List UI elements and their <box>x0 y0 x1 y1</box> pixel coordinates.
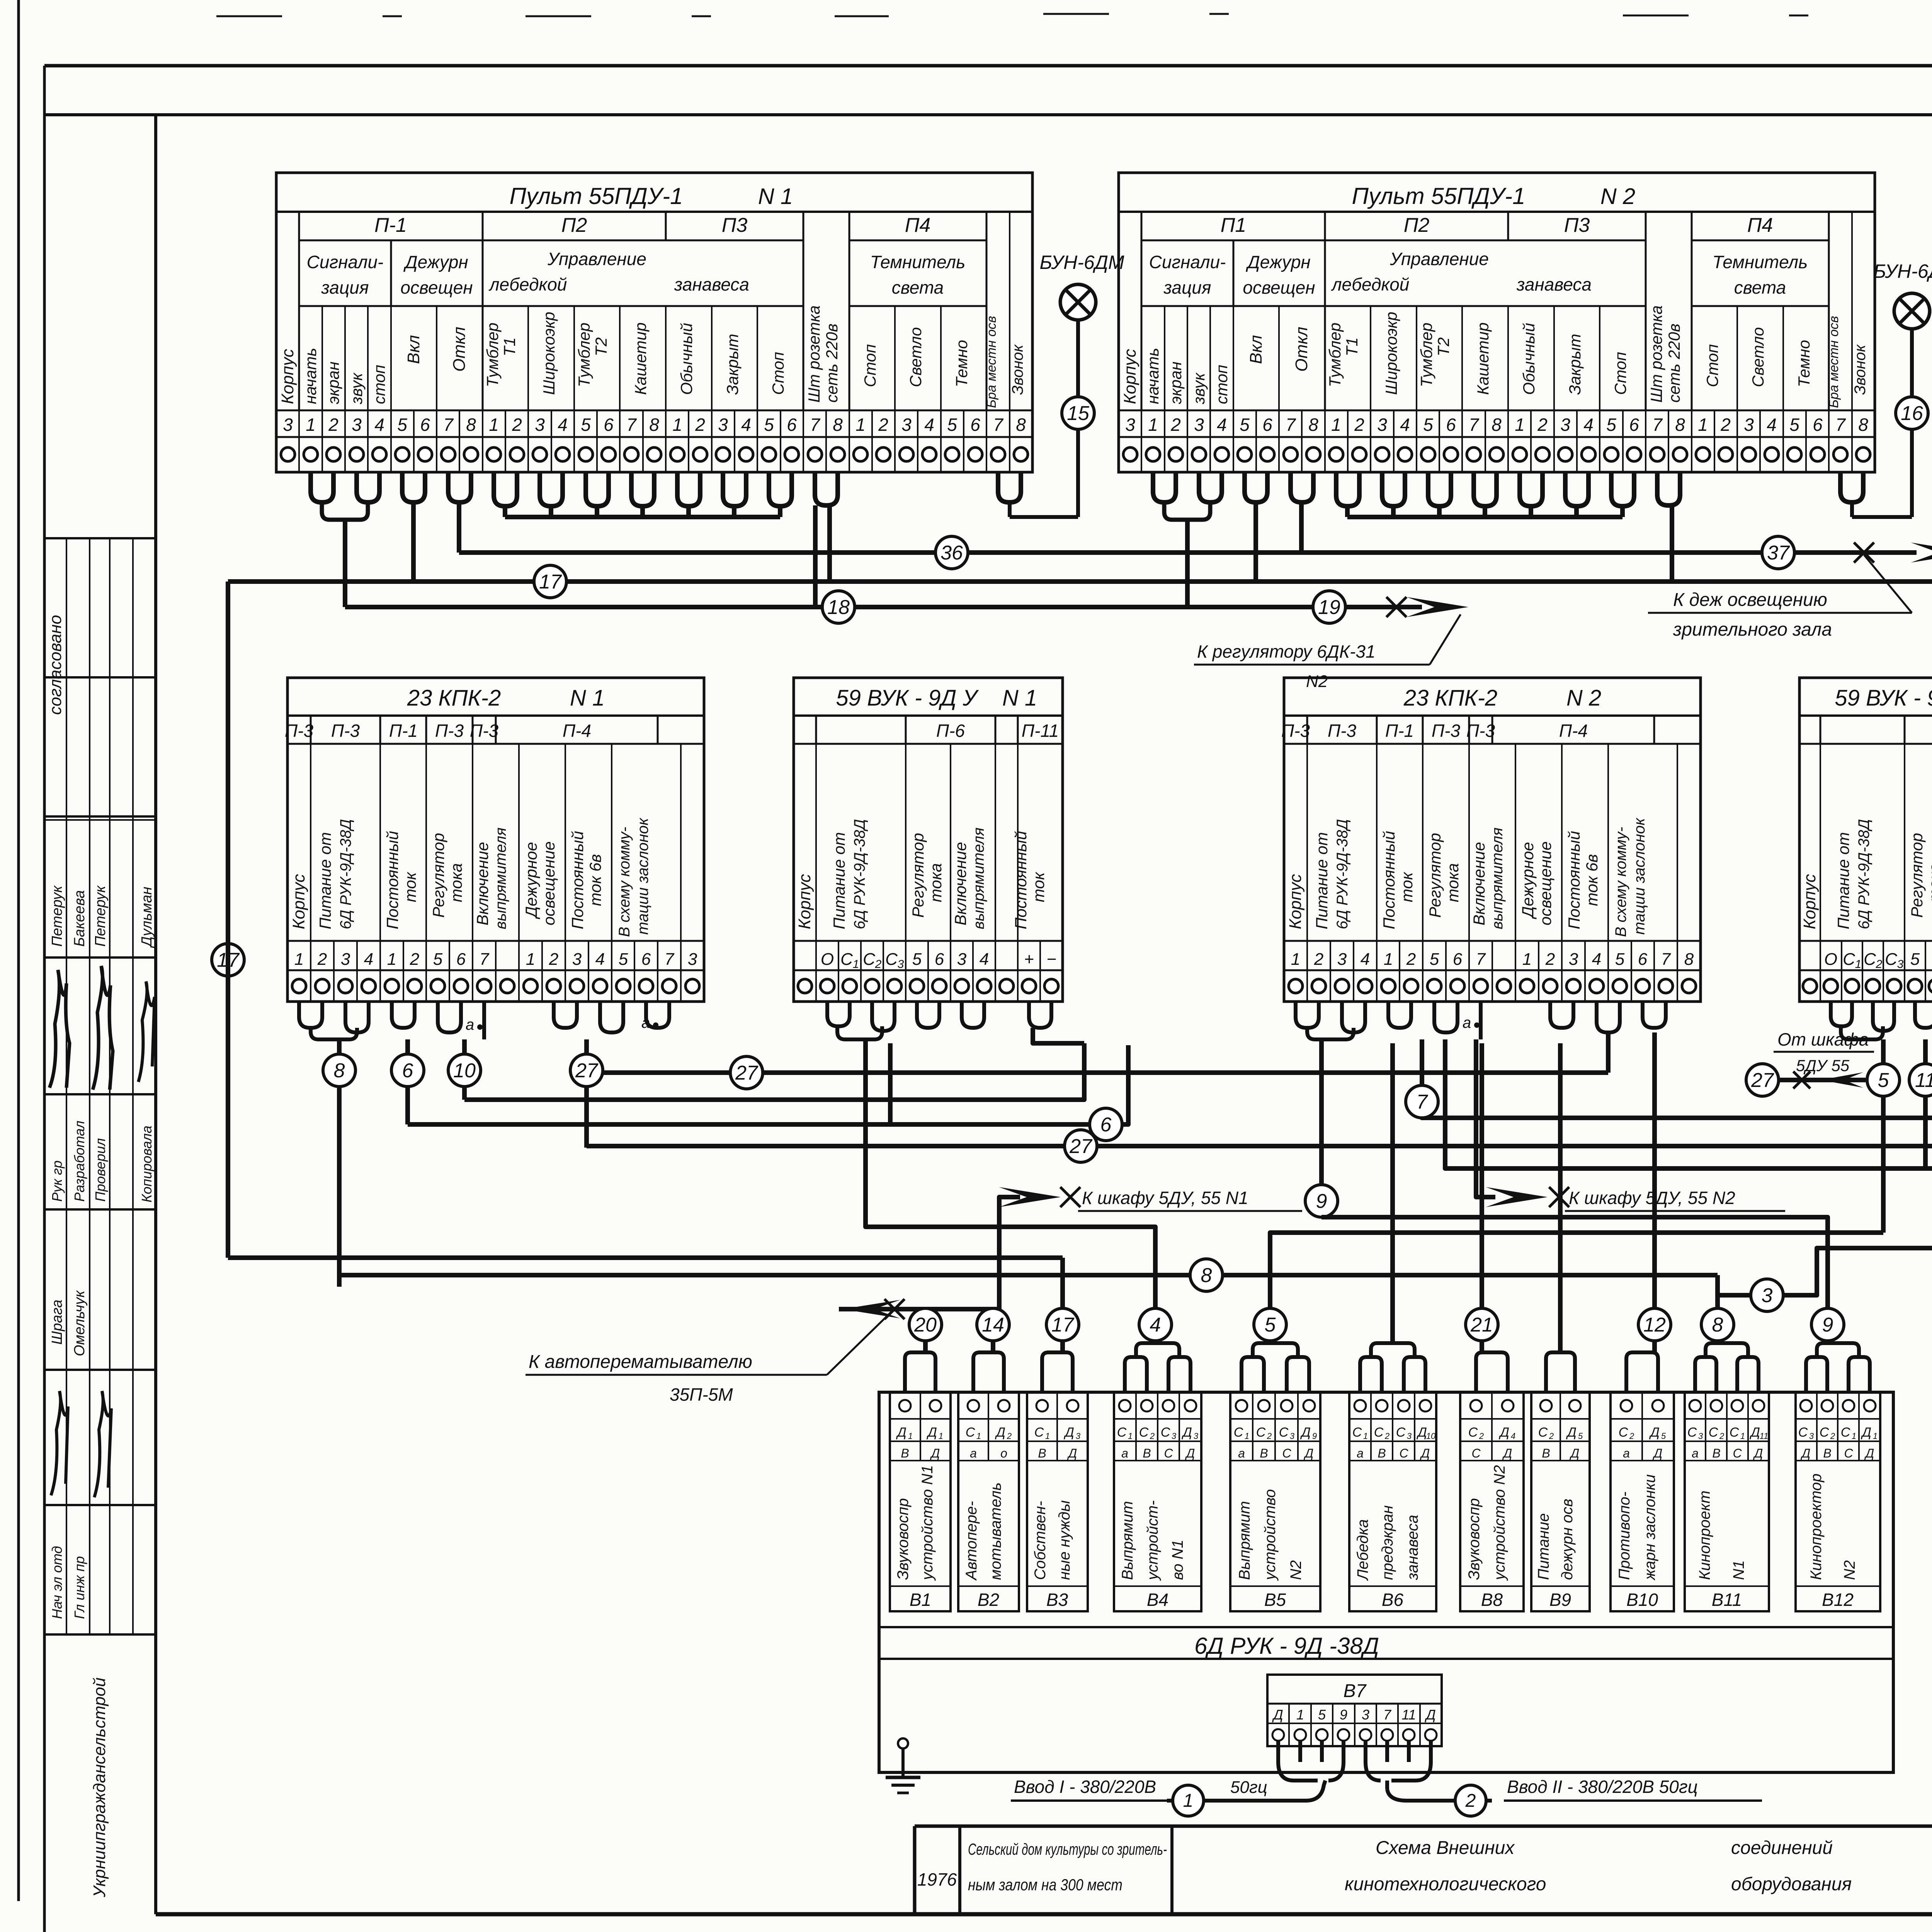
svg-text:N2: N2 <box>1287 1560 1304 1580</box>
svg-text:1: 1 <box>1873 1431 1878 1441</box>
svg-text:О: О <box>821 950 834 969</box>
svg-text:П-4: П-4 <box>1559 721 1588 741</box>
svg-text:Откл: Откл <box>1292 327 1311 372</box>
svg-text:Д: Д <box>1424 1707 1435 1723</box>
svg-text:К регулятору 6ДК-31: К регулятору 6ДК-31 <box>1197 641 1376 662</box>
svg-text:Постоянный: Постоянный <box>1012 831 1030 929</box>
svg-text:6: 6 <box>1100 1114 1112 1136</box>
svg-text:мотыватель: мотыватель <box>987 1483 1004 1580</box>
svg-text:5: 5 <box>1240 415 1250 435</box>
wire 27 stub <box>570 1039 603 1148</box>
svg-text:6Д РУК-9Д-38Д: 6Д РУК-9Д-38Д <box>851 819 868 929</box>
svg-text:Д: Д <box>1801 1446 1811 1460</box>
main distribution cabinet 6Д РУК-9Д-38Д <box>879 1392 1893 1772</box>
svg-text:П-3: П-3 <box>470 721 499 741</box>
svg-text:17: 17 <box>1051 1314 1075 1336</box>
svg-text:П-1: П-1 <box>389 721 418 741</box>
svg-text:В9: В9 <box>1549 1590 1571 1610</box>
svg-text:7: 7 <box>1835 415 1846 435</box>
svg-text:7: 7 <box>665 950 675 969</box>
svg-text:В: В <box>901 1446 909 1460</box>
label Ввод I <box>1011 1777 1267 1801</box>
svg-text:С: С <box>1730 1425 1739 1440</box>
stamp roles <box>49 1121 155 1202</box>
svg-text:Постоянный: Постоянный <box>568 831 587 929</box>
svg-text:С: С <box>863 950 876 969</box>
svg-text:лебедкой: лебедкой <box>488 274 567 294</box>
svg-text:тока: тока <box>927 863 945 902</box>
svg-text:Корпус: Корпус <box>289 874 308 929</box>
input switch block В7 <box>1267 1675 1442 1746</box>
feeder В10 Противопо- жарн заслонки <box>1611 1392 1674 1611</box>
rectifier unit 59ВУК-9ДУ N1 <box>794 678 1063 1002</box>
svg-text:К деж освещению: К деж освещению <box>1673 590 1827 610</box>
svg-text:Т2: Т2 <box>592 337 610 356</box>
wire 18/19 bus to regulator <box>345 591 1468 623</box>
svg-text:Выпрямит: Выпрямит <box>1236 1501 1253 1580</box>
svg-text:В: В <box>1260 1446 1268 1460</box>
svg-text:С: С <box>1374 1425 1384 1440</box>
svg-text:1: 1 <box>1852 1431 1856 1441</box>
svg-text:N1: N1 <box>1730 1560 1747 1580</box>
svg-text:освещение: освещение <box>540 841 558 925</box>
svg-text:П2: П2 <box>561 214 587 236</box>
svg-text:В5: В5 <box>1264 1590 1286 1610</box>
svg-text:В12: В12 <box>1822 1590 1854 1610</box>
svg-text:3: 3 <box>1194 1431 1199 1441</box>
svg-text:2: 2 <box>317 950 327 969</box>
svg-text:8: 8 <box>1712 1314 1723 1336</box>
svg-text:Схема Внешних: Схема Внешних <box>1376 1838 1515 1858</box>
svg-text:Выпрямит: Выпрямит <box>1119 1501 1136 1580</box>
svg-text:Темнитель: Темнитель <box>1713 252 1808 272</box>
svg-text:1: 1 <box>1855 958 1862 971</box>
svg-text:зация: зация <box>321 277 369 298</box>
wire 17 bundle above B3 <box>1042 1308 1079 1392</box>
svg-text:С: С <box>1164 1446 1173 1460</box>
svg-text:6Д РУК-9Д-38Д: 6Д РУК-9Д-38Д <box>337 819 354 929</box>
svg-text:2: 2 <box>1830 1431 1835 1441</box>
wire 6 run <box>408 1043 1128 1124</box>
svg-text:тока: тока <box>447 863 465 902</box>
wire 36/37 bus to auditorium lighting <box>459 536 1932 613</box>
svg-text:4: 4 <box>595 950 605 969</box>
far-left sheet edge <box>17 0 20 1901</box>
feeder В8 Звуковоспр устройство N2 <box>1460 1392 1524 1611</box>
svg-text:6: 6 <box>604 415 614 435</box>
svg-text:С: С <box>1798 1425 1808 1440</box>
svg-text:Стоп: Стоп <box>1611 352 1629 395</box>
svg-text:С: С <box>1619 1425 1628 1440</box>
svg-text:занавеса: занавеса <box>1404 1515 1421 1580</box>
svg-text:35П-5М: 35П-5М <box>670 1384 733 1405</box>
svg-text:17: 17 <box>539 571 562 593</box>
svg-text:Вкл: Вкл <box>1247 335 1265 364</box>
label К шкафу 5ДУ 55 N1 <box>1078 1188 1302 1211</box>
wire 5 run (ВУК N2 to B5) <box>1270 1096 1883 1308</box>
svg-text:С: С <box>1538 1425 1548 1440</box>
svg-text:Регулятор: Регулятор <box>909 833 927 918</box>
svg-text:N2: N2 <box>1841 1560 1858 1580</box>
wire 12 bundle above B10 <box>1626 1032 1671 1392</box>
svg-text:С: С <box>1279 1425 1289 1440</box>
svg-text:8: 8 <box>1201 1264 1212 1287</box>
svg-text:Обычный: Обычный <box>677 323 696 395</box>
svg-text:6: 6 <box>970 415 980 435</box>
svg-text:Бакеева: Бакеева <box>71 890 88 947</box>
svg-text:В10: В10 <box>1626 1590 1658 1610</box>
wire loops under КПК N2 <box>1296 1002 1666 1039</box>
svg-text:7: 7 <box>1661 950 1671 969</box>
svg-text:Питание от: Питание от <box>1834 832 1852 929</box>
svg-text:Шт розетка: Шт розетка <box>1647 305 1665 403</box>
svg-text:N 2: N 2 <box>1600 184 1635 209</box>
svg-text:Бра местн осв: Бра местн осв <box>984 316 999 408</box>
svg-text:С: С <box>1234 1425 1243 1440</box>
label К автоперематывателю 35П-5М <box>526 1311 893 1405</box>
svg-text:1: 1 <box>672 415 682 435</box>
svg-text:18: 18 <box>827 596 850 619</box>
svg-text:8: 8 <box>1492 415 1502 435</box>
svg-text:о: о <box>1000 1446 1007 1460</box>
svg-text:3: 3 <box>1337 950 1347 969</box>
rectifier unit 59ВУК-9ДУ N2 <box>1799 678 1932 1002</box>
feeder В6 Лебедка предэкран занавеса <box>1349 1392 1436 1611</box>
svg-text:N2: N2 <box>1306 672 1328 691</box>
svg-text:3: 3 <box>901 415 912 435</box>
svg-text:2: 2 <box>410 950 419 969</box>
svg-text:7: 7 <box>993 415 1003 435</box>
svg-text:Т1: Т1 <box>500 337 519 356</box>
svg-text:устройство N2: устройство N2 <box>1491 1465 1508 1581</box>
svg-text:5: 5 <box>1661 1431 1666 1441</box>
svg-text:1: 1 <box>306 415 316 435</box>
svg-text:Включение: Включение <box>951 842 969 925</box>
svg-text:освещение: освещение <box>1536 841 1554 925</box>
svg-text:1: 1 <box>853 958 859 971</box>
svg-text:С: С <box>1864 950 1876 969</box>
svg-text:5: 5 <box>1878 1069 1889 1092</box>
svg-text:6: 6 <box>1629 415 1639 435</box>
svg-text:1976: 1976 <box>917 1869 957 1889</box>
svg-text:Дульман: Дульман <box>139 887 155 948</box>
svg-text:Постоянный: Постоянный <box>1565 831 1583 929</box>
svg-text:С: С <box>1841 1425 1850 1440</box>
svg-text:1: 1 <box>1128 1431 1133 1441</box>
svg-text:Включение: Включение <box>1470 842 1488 925</box>
svg-text:Д: Д <box>995 1425 1005 1440</box>
svg-text:27: 27 <box>1069 1135 1093 1158</box>
svg-text:2: 2 <box>1629 1431 1634 1441</box>
svg-text:2: 2 <box>1150 1431 1155 1441</box>
svg-text:Широкоэкр: Широкоэкр <box>1382 312 1400 395</box>
svg-text:Корпус: Корпус <box>278 349 297 404</box>
svg-text:Управление: Управление <box>1389 249 1489 269</box>
svg-text:ток: ток <box>1029 871 1048 902</box>
svg-text:1: 1 <box>1291 950 1300 969</box>
svg-text:4: 4 <box>558 415 568 435</box>
input I wiring <box>1167 1741 1344 1816</box>
svg-text:3: 3 <box>898 958 904 971</box>
ground symbol <box>886 1738 920 1793</box>
svg-text:а: а <box>1692 1446 1699 1460</box>
svg-text:8: 8 <box>1858 415 1868 435</box>
svg-text:4: 4 <box>1592 950 1601 969</box>
svg-text:П1: П1 <box>1221 214 1247 236</box>
svg-text:Д: Д <box>1570 1446 1580 1460</box>
svg-text:3: 3 <box>1569 950 1578 969</box>
svg-text:В7: В7 <box>1344 1681 1367 1701</box>
svg-text:О: О <box>1824 950 1837 969</box>
svg-text:Д: Д <box>1420 1446 1430 1460</box>
svg-text:3: 3 <box>1897 958 1904 971</box>
stamp signatures <box>49 966 155 1090</box>
svg-text:В1: В1 <box>910 1590 931 1610</box>
svg-text:экран: экран <box>324 362 342 404</box>
svg-text:С: С <box>1396 1425 1406 1440</box>
svg-text:6: 6 <box>420 415 430 435</box>
svg-text:выпрямителя: выпрямителя <box>492 828 509 929</box>
svg-text:С: С <box>1820 1425 1829 1440</box>
svg-text:1: 1 <box>489 415 499 435</box>
svg-text:С: С <box>1709 1425 1718 1440</box>
wire drops console N1 <box>345 502 830 607</box>
svg-text:Омельчук: Омельчук <box>71 1290 88 1356</box>
svg-text:7: 7 <box>810 415 820 435</box>
svg-text:4: 4 <box>1150 1314 1161 1336</box>
svg-text:Дежурное: Дежурное <box>522 842 540 919</box>
wire drops console N2 <box>1187 502 1672 607</box>
svg-text:11: 11 <box>1401 1707 1416 1723</box>
svg-text:15: 15 <box>1067 402 1090 425</box>
svg-text:8: 8 <box>1016 415 1026 435</box>
svg-text:соединений: соединений <box>1731 1838 1833 1858</box>
svg-text:оборудования: оборудования <box>1731 1874 1852 1895</box>
svg-text:Д: Д <box>1272 1707 1283 1723</box>
label Ввод II <box>1504 1777 1762 1801</box>
wire 17 bus <box>212 565 1932 976</box>
feeder В3 Собствен- ные нужды <box>1027 1392 1088 1611</box>
svg-text:23 КПК-2: 23 КПК-2 <box>407 685 501 711</box>
correction mark a 2 <box>641 1014 658 1031</box>
svg-text:4: 4 <box>1400 415 1410 435</box>
svg-text:Питание от: Питание от <box>830 832 848 929</box>
svg-text:Д: Д <box>1181 1425 1192 1440</box>
svg-text:БУН-6ДМ: БУН-6ДМ <box>1873 260 1932 282</box>
svg-text:5: 5 <box>1265 1314 1276 1336</box>
svg-text:Сигнали-: Сигнали- <box>307 252 384 272</box>
svg-text:Т2: Т2 <box>1434 337 1452 356</box>
svg-text:6Д РУК-9Д-38Д: 6Д РУК-9Д-38Д <box>1855 819 1872 929</box>
svg-text:2: 2 <box>1314 950 1323 969</box>
svg-text:4: 4 <box>924 415 934 435</box>
svg-text:С: С <box>1399 1446 1408 1460</box>
svg-text:7: 7 <box>480 950 490 969</box>
svg-text:1: 1 <box>1045 1431 1050 1441</box>
svg-text:Светло: Светло <box>1749 327 1767 387</box>
svg-text:6Д РУК-9Д-38Д: 6Д РУК-9Д-38Д <box>1334 819 1351 929</box>
svg-text:3: 3 <box>1362 1707 1369 1723</box>
svg-text:Тумблер: Тумблер <box>483 323 502 387</box>
svg-text:ным залом на 300 мест: ным залом на 300 мест <box>968 1876 1122 1894</box>
wire 5 bundle above B5 <box>1242 1308 1309 1392</box>
svg-text:зрительного зала: зрительного зала <box>1673 619 1832 640</box>
svg-text:В: В <box>1712 1446 1720 1460</box>
svg-text:Стоп: Стоп <box>769 352 787 395</box>
signal lamp БУН-6ДМ <box>1010 252 1124 517</box>
svg-text:Регулятор: Регулятор <box>1908 833 1926 918</box>
console unit Пульт 55ПДУ-1 N1 <box>276 173 1032 472</box>
label От шкафа 5ДУ 55 with wire 27 <box>1746 1029 1874 1096</box>
svg-text:2: 2 <box>1719 1431 1724 1441</box>
svg-text:во N1: во N1 <box>1169 1540 1186 1580</box>
svg-text:Копировала: Копировала <box>139 1126 155 1202</box>
svg-text:5: 5 <box>1318 1707 1326 1723</box>
svg-text:света: света <box>1734 277 1786 298</box>
svg-text:Обычный: Обычный <box>1520 323 1538 395</box>
svg-text:Кашетир: Кашетир <box>1474 322 1492 395</box>
svg-text:3: 3 <box>352 415 362 435</box>
svg-text:5: 5 <box>1578 1431 1583 1441</box>
svg-text:2: 2 <box>695 415 705 435</box>
svg-text:жарн заслонки: жарн заслонки <box>1641 1475 1658 1581</box>
svg-text:6: 6 <box>1262 415 1272 435</box>
svg-text:4: 4 <box>1583 415 1594 435</box>
svg-text:занавеса: занавеса <box>674 274 749 294</box>
svg-text:2: 2 <box>1479 1431 1484 1441</box>
svg-text:23 КПК-2: 23 КПК-2 <box>1403 685 1498 711</box>
stamp names <box>49 885 155 948</box>
svg-text:5: 5 <box>1430 950 1439 969</box>
svg-text:Дежурное: Дежурное <box>1519 842 1537 919</box>
svg-text:П-3: П-3 <box>435 721 464 741</box>
svg-text:С: С <box>1352 1425 1362 1440</box>
svg-text:освещен: освещен <box>400 277 473 298</box>
svg-text:П3: П3 <box>722 214 748 236</box>
wire 4 bundle above B4 <box>1125 1308 1190 1392</box>
svg-text:3: 3 <box>1125 415 1135 435</box>
svg-text:N 1: N 1 <box>758 184 793 209</box>
svg-text:1: 1 <box>908 1431 913 1441</box>
wire 10 run <box>464 1028 1084 1100</box>
svg-text:3: 3 <box>1377 415 1387 435</box>
input II wiring <box>1366 1741 1492 1816</box>
svg-text:Кинопроект: Кинопроект <box>1696 1491 1713 1580</box>
svg-text:3: 3 <box>1076 1431 1081 1441</box>
svg-text:Гл инж пр: Гл инж пр <box>71 1556 87 1619</box>
svg-text:П-1: П-1 <box>1385 721 1414 741</box>
rectifier control unit 23КПК-2 N2 <box>1281 678 1701 1002</box>
svg-text:Питание от: Питание от <box>316 832 334 929</box>
svg-text:П4: П4 <box>1747 214 1773 236</box>
svg-text:устройство N1: устройство N1 <box>919 1465 936 1581</box>
svg-text:Проверил: Проверил <box>92 1138 108 1202</box>
svg-text:В8: В8 <box>1481 1590 1503 1610</box>
svg-text:1: 1 <box>1148 415 1158 435</box>
svg-text:2: 2 <box>512 415 522 435</box>
svg-text:3: 3 <box>1762 1284 1773 1307</box>
svg-text:4: 4 <box>980 950 989 969</box>
svg-text:Сельский дом культуры со зр: Сельский дом культуры со зритель- <box>968 1840 1167 1858</box>
svg-text:П-3: П-3 <box>1466 721 1495 741</box>
wire 9 bundle above B12 <box>1806 1308 1870 1392</box>
correction mark a 3 <box>1463 1014 1480 1031</box>
wire 11 stub <box>1909 1039 1932 1168</box>
svg-text:П-3: П-3 <box>1328 721 1357 741</box>
svg-text:Корпус: Корпус <box>1800 874 1819 929</box>
svg-text:7: 7 <box>1469 415 1479 435</box>
svg-text:Тумблер: Тумблер <box>1417 323 1435 387</box>
svg-text:ток: ток <box>401 871 419 902</box>
feeder В5 Выпрямит устройство N2 <box>1230 1392 1320 1611</box>
svg-text:а: а <box>1357 1446 1364 1460</box>
svg-text:Корпус: Корпус <box>1286 874 1305 929</box>
svg-text:Широкоэкр: Широкоэкр <box>540 312 558 395</box>
svg-text:Дежурн: Дежурн <box>403 252 468 272</box>
svg-text:Противопо-: Противопо- <box>1616 1492 1633 1580</box>
svg-text:8: 8 <box>466 415 476 435</box>
svg-text:Д: Д <box>1063 1425 1074 1440</box>
svg-text:1: 1 <box>526 950 535 969</box>
svg-text:Ввод II - 380/220В 50гц: Ввод II - 380/220В 50гц <box>1507 1777 1698 1797</box>
svg-text:С: С <box>1733 1446 1742 1460</box>
svg-text:2: 2 <box>549 950 558 969</box>
svg-text:5: 5 <box>764 415 774 435</box>
svg-text:27: 27 <box>735 1062 759 1084</box>
svg-text:Постоянный: Постоянный <box>1380 831 1398 929</box>
svg-text:3: 3 <box>688 950 697 969</box>
svg-text:Д: Д <box>1300 1425 1311 1440</box>
svg-text:Д: Д <box>1416 1425 1427 1440</box>
svg-text:В схему комму-: В схему комму- <box>1612 827 1629 937</box>
svg-text:Д: Д <box>926 1425 937 1440</box>
svg-text:7: 7 <box>1383 1707 1392 1723</box>
svg-text:1: 1 <box>1522 950 1532 969</box>
stamp dept names <box>49 1546 87 1619</box>
svg-text:8: 8 <box>1684 950 1694 969</box>
svg-text:4: 4 <box>1767 415 1777 435</box>
svg-text:Разработал: Разработал <box>71 1121 87 1202</box>
svg-text:3: 3 <box>1560 415 1570 435</box>
svg-text:59 ВУК - 9Д У: 59 ВУК - 9Д У <box>1835 685 1932 711</box>
svg-text:5: 5 <box>1615 950 1625 969</box>
svg-text:1: 1 <box>1296 1707 1304 1723</box>
svg-text:а: а <box>1238 1446 1245 1460</box>
svg-text:5: 5 <box>912 950 922 969</box>
wire 5 stub under ВУК N2 <box>1867 1039 1900 1096</box>
svg-text:С: С <box>1117 1425 1127 1440</box>
svg-text:2: 2 <box>1545 950 1555 969</box>
svg-text:N 1: N 1 <box>1002 685 1037 711</box>
svg-text:4: 4 <box>1361 950 1370 969</box>
svg-text:6: 6 <box>1446 415 1456 435</box>
svg-text:С: С <box>1034 1425 1044 1440</box>
svg-text:+: + <box>1024 950 1034 969</box>
svg-text:Тумблер: Тумблер <box>1326 323 1344 387</box>
stamp column grid <box>44 538 156 1634</box>
svg-text:Автопере-: Автопере- <box>963 1501 980 1581</box>
svg-text:П-1: П-1 <box>374 214 407 236</box>
svg-text:1: 1 <box>387 950 396 969</box>
svg-text:1: 1 <box>294 950 304 969</box>
svg-text:36: 36 <box>940 542 963 564</box>
svg-text:лебедкой: лебедкой <box>1331 274 1410 294</box>
feeder В4 Выпрямит устройст- во N1 <box>1114 1392 1201 1611</box>
wire loops under ВУК N1 <box>827 1002 1051 1039</box>
svg-text:С: С <box>1687 1425 1697 1440</box>
svg-text:2: 2 <box>1406 950 1416 969</box>
wire 14 bundle above B2 <box>973 1308 1009 1392</box>
